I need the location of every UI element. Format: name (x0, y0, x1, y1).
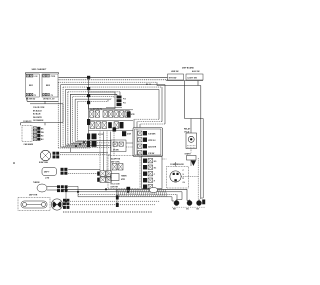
svg-text:ICE SW: ICE SW (148, 153, 154, 155)
harness wire 1 (58, 81, 157, 83)
svg-text:P2: P2 (34, 95, 36, 97)
defrost thermostat wires (68, 168, 100, 170)
dispenser feed stubs (184, 81, 186, 119)
board feed drop 7 (110, 98, 112, 101)
ice maker connector box (133, 128, 163, 157)
freezer fan wires (60, 151, 108, 153)
svg-text:BU BLUE: BU BLUE (33, 114, 41, 116)
overload feed stub (190, 119, 192, 134)
terminal row 1 blob (127, 111, 131, 117)
defrost heater element (21, 201, 47, 208)
splice blobs right group (92, 134, 97, 140)
svg-text:DEF HTR: DEF HTR (29, 195, 38, 197)
harness wire 7 (73, 96, 114, 98)
thermistor body (37, 184, 47, 192)
bottom bus wire 3 (dashed) (78, 193, 177, 195)
svg-text:P11: P11 (123, 103, 126, 105)
trunk wire 2 (202, 119, 204, 199)
splice blobs (87, 76, 90, 79)
harness wire 6 (70, 93, 117, 95)
splice blob on bus (127, 187, 131, 191)
svg-text:DISP BOARD: DISP BOARD (182, 67, 194, 70)
plug prong 3 (197, 201, 202, 206)
harness wire 2 (61, 84, 165, 86)
svg-text:CAB HARN: CAB HARN (24, 143, 34, 146)
bus junction dots (65, 188, 67, 190)
svg-text:AUG SW: AUG SW (192, 70, 200, 73)
svg-text:2CR: 2CR (127, 134, 132, 136)
terminal row 2 (89, 120, 134, 122)
defrost thermostat terminals (61, 168, 64, 171)
plug prong 1 (174, 201, 179, 206)
bus wire L1 (dashed, to dispenser board) (59, 79, 168, 81)
defrost control box (108, 156, 140, 189)
ice maker terminal rows (136, 129, 138, 155)
svg-text:RELAY: RELAY (184, 128, 191, 131)
bus junction stubs (68, 185, 78, 187)
aux relay block (111, 140, 126, 152)
svg-text:START: START (185, 153, 192, 156)
board feed drop 4 (119, 92, 121, 95)
bottom fan terminals (63, 199, 66, 202)
harness wire 4 (65, 88, 159, 90)
harness wire 9 (78, 101, 108, 103)
mid verticals into defrost box (99, 132, 101, 171)
cabinet connector bracket (21, 122, 64, 124)
svg-text:COMPRESSOR: COMPRESSOR (170, 164, 184, 166)
svg-text:EVAP FAN: EVAP FAN (39, 161, 49, 164)
top-left assembly bracket (26, 72, 59, 74)
svg-text:LIGHT SW: LIGHT SW (188, 77, 197, 79)
plug prong 2 (187, 201, 192, 206)
defrost heater outer box (18, 198, 50, 211)
defrost timer box (111, 174, 120, 181)
svg-text:TIMER: TIMER (121, 176, 127, 178)
svg-text:LINE SW: LINE SW (171, 71, 179, 73)
ice-maker feed wire 1 (164, 85, 166, 124)
bottom dashed wire 6 (68, 204, 155, 206)
dispenser board box 1 (168, 74, 184, 80)
relay board K2 (right box) (42, 74, 58, 97)
svg-text:1CR: 1CR (131, 114, 136, 116)
ice-maker feed wire 2 (161, 87, 163, 122)
bottom long dashed wire 7 (63, 211, 152, 213)
trunk feed wire (156, 82, 158, 85)
bus wire N (top, to dispenser board) (59, 76, 168, 78)
svg-text:THERM: THERM (33, 182, 40, 184)
terminal grid left of defrost box (100, 171, 105, 176)
cabinet connector box (22, 126, 32, 142)
svg-text:P10: P10 (123, 98, 126, 100)
svg-text:WTR VLV: WTR VLV (148, 140, 156, 142)
compressor box (167, 167, 189, 189)
harness merge dots (75, 145, 77, 147)
bottom bus wire 1 (63, 188, 187, 190)
harness drop to evap fan row (69, 148, 71, 152)
bottom bus wire 2 (68, 191, 182, 193)
svg-text:COLOR CODE: COLOR CODE (33, 107, 45, 109)
svg-text:ADAPTIVE: ADAPTIVE (111, 158, 121, 161)
svg-text:DEF HTR: DEF HTR (111, 186, 119, 188)
freezer fan terminals (53, 152, 56, 155)
dispenser bracket (166, 80, 203, 82)
bottom dashed wire 5 (68, 200, 160, 202)
color code legend (30, 103, 63, 105)
harness hatch band (116, 190, 118, 197)
harness twist oval (149, 187, 157, 192)
svg-text:HTR SW: HTR SW (169, 77, 177, 79)
svg-text:ICE MKR: ICE MKR (148, 134, 156, 136)
harness lower horizontals to ice-maker box (90, 140, 111, 142)
run capacitor wedge (191, 161, 196, 167)
terminal row 1 (89, 109, 134, 111)
svg-text:OR ORANGE: OR ORANGE (33, 119, 44, 122)
board feed drop 5 (116, 94, 118, 96)
connector pin blobs (117, 96, 122, 99)
relay board K1 (left box) (26, 74, 40, 97)
svg-text:DEF T: DEF T (44, 172, 50, 174)
compressor motor circle (170, 171, 181, 182)
svg-text:P5 P8: P5 P8 (51, 76, 55, 78)
svg-text:CONN P2: CONN P2 (23, 121, 31, 123)
svg-text:MTR: MTR (121, 179, 126, 181)
dashed link to trunk (163, 158, 167, 160)
start device (190, 149, 192, 153)
trunk wire 3 (dashed) (197, 158, 199, 199)
terminal row 2 blobs (108, 122, 112, 128)
dispenser board box 2 (186, 74, 203, 80)
cabinet connector terminals (33, 127, 36, 130)
svg-text:WH WHITE: WH WHITE (33, 117, 43, 119)
board feed drop 6 (113, 96, 115, 99)
trunk bottom jog (201, 197, 203, 199)
bottom bus wire 4 (78, 196, 172, 198)
splice column wire (88, 76, 90, 147)
thermistor wires (47, 186, 57, 188)
svg-text:BK BLACK: BK BLACK (33, 109, 43, 112)
svg-text:SER CABINET: SER CABINET (32, 68, 47, 71)
svg-text:DEF CTRL: DEF CTRL (111, 161, 121, 163)
inter-board splice blob (122, 131, 126, 136)
svg-text:OR RD YL GY: OR RD YL GY (43, 99, 55, 101)
harness wire 8 (75, 98, 111, 100)
board feed drop 8 (107, 100, 109, 102)
defrost thermostat (42, 168, 57, 176)
defrost control terminals (112, 164, 117, 171)
svg-text:HI LO COM: HI LO COM (111, 183, 120, 185)
svg-text:L RD: L RD (45, 178, 50, 180)
overload device (186, 133, 197, 149)
plug base dashes (172, 206, 205, 208)
stray junction dot (13, 162, 15, 164)
evaporator fan motor (bottom) (51, 199, 62, 210)
bus junction blobs (116, 195, 119, 199)
svg-text:BK WH BU: BK WH BU (26, 99, 36, 101)
aux relay block wires (126, 142, 133, 144)
compressor feed wires (181, 176, 199, 178)
svg-text:K1 K2: K1 K2 (98, 134, 103, 136)
thermistor terminals (57, 185, 60, 188)
svg-text:P9: P9 (51, 95, 53, 97)
freezer fan motor (40, 150, 50, 160)
aux relay box (142, 156, 163, 189)
svg-text:L1 N P1 P2 P3: L1 N P1 P2 P3 (91, 108, 102, 110)
svg-text:AUG MTR: AUG MTR (148, 146, 157, 149)
harness wire 3 (63, 86, 162, 88)
wire from board K1 bottom to legend (26, 97, 28, 101)
harness wire 5 (68, 91, 120, 93)
ice-maker feed wire 3 (158, 89, 160, 119)
trunk wire 1 (200, 86, 202, 200)
control board box (89, 92, 116, 109)
